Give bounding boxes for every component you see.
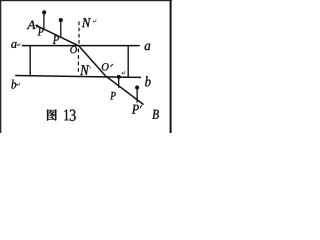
label P (pin P2) — [53, 36, 59, 44]
label A (incident ray) — [27, 21, 36, 29]
label P' (pin P4) — [132, 105, 142, 114]
label P (pin P1) — [38, 28, 44, 36]
emergent ray O' to B — [105, 76, 143, 105]
label a (left end of top surface) — [11, 42, 20, 48]
label B (emergent ray direction) — [152, 110, 159, 119]
node O' (exit point) label — [102, 63, 113, 70]
pin P3 head ball — [117, 75, 121, 79]
label N (normal at O) — [82, 18, 96, 27]
small return mark near right slab edge — [122, 71, 125, 74]
normal dashed line below surface (inside glass) — [77, 49, 79, 72]
node O (point of incidence) label — [70, 46, 77, 53]
label P (pin P3) — [110, 92, 116, 99]
label b (left end of bottom surface) — [11, 80, 19, 89]
pin P1 stem — [43, 14, 45, 30]
figure caption: number 13 — [64, 110, 75, 121]
refracted ray O to O' inside glass slab — [79, 46, 106, 76]
label b (right end of bottom surface) — [145, 76, 150, 86]
pin P2 stem — [60, 21, 62, 37]
label N (normal, inside glass) — [80, 65, 91, 75]
surface line a-a (top face of glass slab) — [22, 45, 140, 47]
pin P1 head ball — [42, 10, 46, 14]
pin P2 head ball — [59, 18, 63, 22]
figure caption: 图 character — [47, 109, 57, 120]
incident ray A to O — [35, 24, 78, 46]
glass slab right edge — [127, 46, 129, 78]
label a (right end of top surface) — [145, 44, 151, 51]
pin P3 stem — [118, 78, 120, 88]
pin P4 head ball — [135, 86, 139, 90]
surface line b-b (bottom face of glass slab) — [15, 76, 141, 78]
glass slab left edge — [29, 45, 31, 76]
normal N dashed line above top surface — [78, 22, 80, 46]
pin P4 stem — [136, 89, 138, 103]
